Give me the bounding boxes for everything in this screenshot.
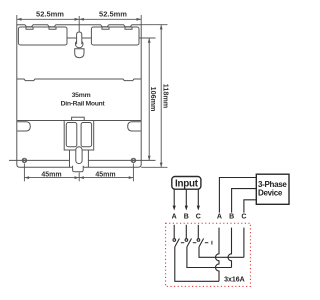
device wire B above label to box — [232, 189, 257, 213]
svg-text:B: B — [184, 213, 189, 220]
wire switch A to device A (bottom run) — [175, 247, 219, 281]
svg-text:Device: Device — [258, 188, 283, 197]
wire switch B to device B (middle run) — [187, 247, 232, 268]
arrow bottom far-left — [24, 176, 29, 179]
switch blade B — [187, 239, 192, 247]
svg-text:Din-Rail Mount: Din-Rail Mount — [61, 100, 106, 107]
switch pole C circle — [197, 239, 200, 242]
device B vertical with one hop — [228, 228, 231, 268]
top ext line center — [78, 16, 80, 32]
linkage dash 3 — [205, 242, 209, 244]
svg-text:106mm: 106mm — [149, 87, 158, 112]
device outline with 4 top notches — [17, 25, 141, 168]
clip bottom tab — [73, 166, 84, 172]
switch pole B circle — [185, 239, 188, 242]
arrow top center-left — [75, 18, 80, 21]
clip slot — [76, 147, 82, 164]
svg-text:3x16A: 3x16A — [224, 276, 245, 283]
body line y=79 with two notches — [17, 79, 141, 81]
118mm top extension — [141, 24, 167, 26]
top dim line — [17, 18, 141, 20]
input labels A B C — [172, 213, 247, 220]
arrow top far-left — [17, 18, 22, 21]
keyhole slot — [77, 32, 82, 44]
right foot — [128, 122, 141, 131]
switch blade C — [199, 239, 204, 247]
svg-text:45mm: 45mm — [95, 171, 115, 178]
wire input box to A — [173, 190, 175, 206]
keyhole slot mask — [77, 32, 82, 44]
3-Phase Device text — [258, 180, 287, 197]
bottom ext left hole — [23, 164, 25, 182]
switch pole A circle — [173, 239, 176, 242]
wire switch C to device C (top run) — [199, 247, 244, 257]
arrowhead C — [197, 206, 200, 211]
left foot — [17, 122, 30, 131]
terminal block right — [91, 27, 139, 45]
keyhole circle — [75, 40, 83, 48]
input wire A inside box — [173, 225, 175, 239]
terminal block left — [18, 27, 67, 45]
svg-text:52.5mm: 52.5mm — [99, 10, 127, 19]
input wire C inside box — [197, 225, 199, 239]
arrow bottom center-right — [79, 176, 84, 179]
bottom dim line — [24, 177, 133, 179]
svg-text:45mm: 45mm — [41, 171, 61, 178]
device wire A above label to box — [219, 178, 256, 213]
body line y=120.5 — [17, 120, 141, 122]
inner line y=38 right segment + 106mm top extension — [139, 37, 156, 39]
arrow 106 top — [148, 38, 151, 43]
linkage dash 1 — [181, 242, 185, 244]
device wire C above label to box — [244, 200, 257, 213]
118mm bottom extension — [141, 166, 167, 168]
wire input box to C — [197, 190, 199, 206]
svg-text:Input: Input — [175, 178, 199, 189]
device A vertical with two hops — [216, 228, 220, 282]
clip inner rect left — [66, 123, 77, 147]
3-Phase Device box — [256, 174, 289, 204]
red dashed enclosure 3x16A breaker — [166, 223, 251, 286]
block right notch 1 — [102, 27, 109, 29]
Input box — [172, 177, 201, 190]
clip top tab — [72, 117, 85, 120]
arrow bottom far-right — [129, 176, 134, 179]
clip inner rect right — [81, 123, 92, 147]
arrow 118 top — [160, 25, 163, 30]
wire input box to B — [185, 190, 187, 206]
switch blade A — [175, 239, 180, 247]
svg-text:A: A — [172, 213, 177, 220]
arrow bottom center-left — [75, 176, 80, 179]
top ext line right — [140, 15, 142, 25]
svg-text:52.5mm: 52.5mm — [36, 10, 64, 19]
bottom ext right hole — [132, 164, 134, 182]
arrow top far-right — [137, 18, 142, 21]
top ext line left — [16, 15, 18, 25]
block right notch 2 — [125, 27, 132, 29]
arrow 118 bottom — [160, 163, 163, 168]
bottom ext center — [78, 173, 80, 182]
U-tab below keyhole — [75, 49, 84, 58]
inner line y=38 between blocks — [67, 37, 91, 39]
linkage end tick — [211, 241, 213, 245]
block left notch 2 — [49, 27, 56, 29]
mounting hole right — [131, 158, 135, 162]
svg-text:A: A — [217, 213, 222, 220]
device C vertical — [243, 228, 245, 258]
svg-text:C: C — [241, 213, 246, 220]
foot line y=160.4 right segment + 106mm bottom extension — [88, 159, 155, 161]
arrowhead B — [185, 206, 188, 211]
svg-text:35mm: 35mm — [72, 92, 91, 99]
svg-text:C: C — [196, 213, 201, 220]
118mm dim line — [160, 25, 162, 168]
clip narrow column — [70, 150, 89, 167]
106mm dim line — [148, 38, 150, 160]
svg-text:B: B — [229, 213, 234, 220]
svg-text:118mm: 118mm — [162, 84, 171, 108]
arrow top center-right — [79, 18, 84, 21]
foot line y=160.4 left segment — [9, 159, 70, 161]
clip main rect — [64, 121, 94, 151]
block left notch 1 — [26, 27, 33, 29]
arrowhead A — [173, 206, 176, 211]
linkage dash 2 — [193, 242, 197, 244]
input wire B inside box — [185, 225, 187, 239]
arrow 106 bottom — [148, 156, 151, 161]
mounting hole left — [22, 158, 26, 162]
